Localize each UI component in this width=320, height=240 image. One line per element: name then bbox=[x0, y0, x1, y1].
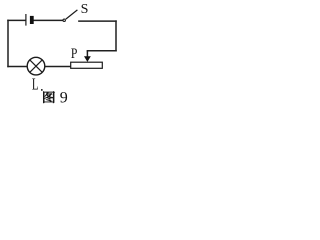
wire top-left horizontal bbox=[8, 19, 25, 21]
stray scan dot bbox=[41, 89, 43, 91]
rheostat slider arrowhead bbox=[84, 56, 91, 62]
lamp L cross stroke 2 bbox=[30, 60, 42, 72]
rheostat slider shaft bbox=[86, 51, 88, 58]
wire left vertical bbox=[7, 20, 9, 66]
wire battery to switch bbox=[34, 19, 63, 21]
caption character 图 bbox=[43, 91, 54, 103]
wire bottom-left to lamp bbox=[8, 66, 27, 68]
lamp L cross stroke 1 bbox=[30, 60, 42, 72]
switch S pivot circle bbox=[63, 19, 65, 21]
wire right vertical bbox=[115, 21, 117, 51]
rheostat P body bbox=[71, 62, 103, 68]
switch S blade bbox=[66, 10, 78, 19]
lamp L circle bbox=[27, 57, 45, 75]
svg-text:P: P bbox=[71, 45, 78, 62]
wire switch to top-right corner bbox=[79, 20, 116, 22]
wire horizontal to slider bbox=[87, 50, 116, 52]
battery B1 long plate bbox=[25, 14, 27, 26]
svg-text:L: L bbox=[32, 76, 39, 94]
svg-text:S: S bbox=[81, 2, 89, 17]
svg-text:9: 9 bbox=[60, 90, 68, 107]
battery B1 short thick plate bbox=[30, 16, 34, 24]
wire lamp to rheostat bbox=[45, 66, 71, 68]
